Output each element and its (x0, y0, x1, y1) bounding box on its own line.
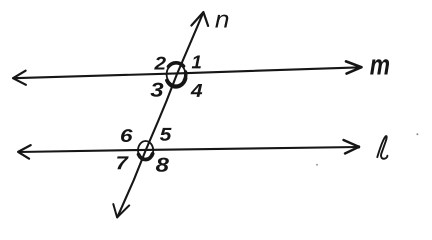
wire line m (14, 67, 362, 78)
angle label 2 (154, 57, 166, 70)
angle label 6 (121, 129, 133, 142)
arrow l left (18, 145, 31, 159)
angle label 1 (192, 55, 201, 68)
arrow n top (191, 12, 208, 26)
node circle at l-n intersection (138, 141, 153, 160)
angle label 8 (156, 158, 169, 172)
speck (316, 164, 318, 166)
arrow m left (13, 71, 26, 85)
angle label 3 (150, 83, 163, 97)
node circle at m-n intersection (167, 64, 186, 86)
wire transversal n (117, 12, 203, 217)
arrow n bottom (113, 204, 129, 217)
wire line l (19, 147, 359, 152)
angle label 4 (191, 84, 203, 97)
angle label 7 (117, 156, 129, 169)
node label l (377, 136, 387, 159)
line label m (370, 59, 389, 74)
speck (416, 133, 418, 135)
arrow m right (346, 61, 362, 73)
angle label 5 (160, 128, 172, 141)
arrow l right (344, 140, 360, 154)
line label n (215, 15, 228, 28)
